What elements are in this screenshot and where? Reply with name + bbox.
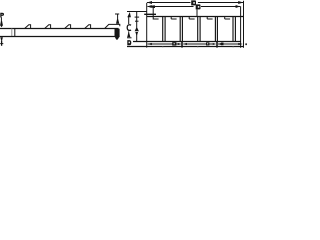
plan right edge / ext line bbox=[243, 1, 245, 47]
tooth 3 bbox=[65, 25, 71, 29]
label A blob bbox=[135, 28, 139, 31]
tooth 4 bbox=[85, 25, 91, 29]
plan rect bottom edge bbox=[127, 46, 244, 48]
band label 1 bbox=[172, 42, 176, 45]
leader below dim2 label bbox=[196, 9, 198, 16]
bottom dim tick bbox=[0, 43, 3, 45]
bottom dim stem bbox=[1, 41, 3, 46]
wire top line side view bbox=[0, 28, 119, 30]
right dim stem bbox=[117, 14, 119, 20]
tab filled right end bbox=[115, 29, 120, 40]
dim2 arrow left bbox=[147, 5, 152, 8]
bottom band dims y44 bbox=[148, 43, 239, 45]
tooth 5 and step top bbox=[105, 24, 120, 28]
wire left inner edge faint bbox=[11, 29, 13, 37]
dim2 label blob bbox=[196, 4, 201, 9]
pair 5 bbox=[233, 17, 235, 42]
plan rect top edge bbox=[147, 16, 244, 18]
arrowhead left dim down bbox=[0, 21, 3, 27]
pair 2 (crosses band) bbox=[180, 17, 182, 42]
label C bbox=[127, 25, 131, 31]
right dim tick top bbox=[115, 13, 119, 15]
wire dim stem left top bbox=[0, 17, 2, 21]
dim2 arrow right bbox=[236, 5, 241, 8]
band label 3 bbox=[221, 43, 224, 46]
plan internal line y41 bbox=[133, 41, 241, 43]
tick line y11 left bbox=[127, 11, 147, 13]
stubs below bottom edge bbox=[147, 47, 244, 48]
dim1 label blob bbox=[191, 0, 196, 5]
wire left edge side view bbox=[14, 29, 16, 37]
stray dot far right bbox=[245, 43, 247, 45]
pair 3 bbox=[198, 17, 200, 42]
wire bottom line side view bbox=[0, 36, 120, 38]
dim1 arrow right bbox=[238, 1, 243, 4]
bottom dim arrowhead up bbox=[0, 37, 3, 40]
label D bottom left bbox=[127, 40, 131, 45]
tooth 2 bbox=[45, 25, 51, 29]
dim1 arrow left bbox=[147, 1, 152, 4]
left dim col 1 (x128.5) bbox=[127, 12, 131, 17]
label P (left dim, side view) bbox=[1, 13, 4, 17]
dim2 ext crossing blob bbox=[152, 5, 155, 8]
tooth 1 bbox=[25, 25, 31, 29]
ext line x240.5 bbox=[240, 6, 242, 46]
plan left edge / ext line bbox=[146, 3, 148, 47]
tab edge y14 plan bbox=[144, 13, 156, 15]
band label 2 bbox=[206, 42, 209, 45]
left dim col 2 (x136.5) bbox=[135, 12, 140, 32]
top dim2 line bbox=[148, 6, 241, 8]
short mid verticals with feet bbox=[153, 18, 158, 20]
ext short line x153 bbox=[152, 8, 154, 20]
pair 4 (crosses band) bbox=[215, 17, 217, 42]
right dim arrowhead bbox=[116, 19, 119, 23]
pair 1 bbox=[163, 17, 165, 42]
top dim1 line bbox=[147, 2, 243, 4]
